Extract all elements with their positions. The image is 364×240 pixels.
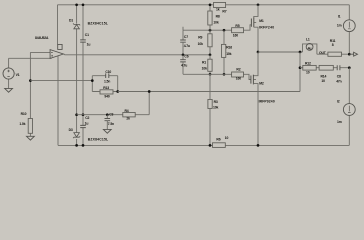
svg-text:D3: D3: [69, 128, 73, 132]
wire op-amp V- drop: [57, 56, 59, 145]
svg-text:C3: C3: [109, 112, 113, 116]
wire C2 branch segment: [82, 115, 84, 146]
node dot R11 right: [348, 53, 351, 56]
resistor R10: [28, 119, 32, 134]
node dot R16 top: [223, 29, 226, 32]
resistor R1: [208, 59, 212, 71]
wire -in from node A: [30, 51, 50, 53]
zener D1: [73, 23, 80, 28]
svg-text:1u: 1u: [85, 122, 89, 126]
svg-text:1.5n: 1.5n: [104, 80, 110, 84]
capacitor C10: [92, 75, 117, 77]
node dot D3 bottom rail: [75, 144, 78, 147]
wire R8 leads: [209, 5, 211, 30]
svg-text:1u: 1u: [87, 43, 91, 47]
wire zener D3 segment: [76, 115, 78, 146]
svg-text:C1: C1: [85, 33, 89, 37]
resistor R14: [319, 65, 333, 70]
wire gate bus lower y=74.3: [183, 74, 251, 79]
resistor R5: [232, 28, 244, 33]
svg-text:R14: R14: [321, 74, 327, 78]
svg-text:10: 10: [306, 71, 310, 75]
resistor R2: [232, 72, 244, 77]
wire R13 leads: [92, 91, 117, 93]
capacitor C2: [80, 125, 86, 127]
svg-text:10: 10: [321, 79, 325, 83]
svg-text:R16: R16: [226, 45, 232, 49]
svg-text:R4: R4: [125, 109, 129, 113]
wire R3 leads: [209, 74, 211, 145]
svg-text:R9: R9: [198, 36, 202, 40]
wire riser x=149.2: [148, 92, 150, 115]
svg-text:4u: 4u: [308, 46, 312, 50]
svg-text:C6: C6: [184, 54, 188, 58]
wire V- bottom rail right segment: [225, 144, 349, 146]
wire gate bus y=30.2: [183, 25, 251, 30]
svg-text:R5: R5: [235, 24, 239, 28]
node dot D3 top: [75, 113, 78, 116]
resistor R3: [208, 100, 212, 109]
svg-text:1.0k: 1.0k: [19, 122, 25, 126]
wire R9 leads: [209, 30, 211, 55]
svg-text:4.7u: 4.7u: [184, 44, 190, 48]
svg-text:1m: 1m: [337, 23, 342, 27]
wire zobel riser: [299, 52, 301, 92]
resistor R12: [303, 65, 316, 70]
svg-text:C7: C7: [184, 35, 188, 39]
svg-text:160: 160: [236, 77, 241, 81]
ground R10: [27, 136, 35, 140]
source I1: [343, 5, 355, 54]
svg-text:R7: R7: [222, 9, 226, 13]
svg-text:10: 10: [225, 136, 229, 140]
transistor M1: [251, 5, 258, 52]
wire feedback from node A: [30, 80, 92, 82]
transistor M2: [251, 52, 258, 145]
wire top V+ rail: [58, 4, 350, 6]
svg-text:7.5n: 7.5n: [108, 122, 114, 126]
svg-text:10k: 10k: [213, 106, 218, 110]
wire output run y=53.9: [258, 52, 349, 54]
port OUT flag: [349, 52, 357, 56]
svg-text:IRFP240: IRFP240: [259, 26, 274, 30]
resistor R8: [208, 11, 212, 25]
wire D1 branch vertical: [76, 5, 78, 115]
svg-text:M2: M2: [259, 82, 264, 86]
node dot C2 bottom rail: [82, 144, 85, 147]
svg-text:47n: 47n: [336, 79, 341, 83]
svg-text:940: 940: [104, 94, 109, 98]
wire R10 to ground: [29, 133, 31, 136]
wire mid supply tie y=114.7: [77, 114, 150, 116]
svg-text:R8: R8: [216, 14, 220, 18]
wire C1 branch vertical: [82, 5, 84, 115]
svg-text:160: 160: [233, 33, 238, 37]
svg-text:BZX84C15L: BZX84C15L: [88, 137, 108, 141]
wire RC loop left: [91, 76, 93, 92]
inductor L1: [303, 44, 317, 55]
svg-text:R3: R3: [214, 100, 218, 104]
svg-text:1m: 1m: [337, 120, 342, 124]
svg-text:C2: C2: [85, 116, 89, 120]
zener D3: [73, 133, 80, 139]
svg-text:I1: I1: [338, 15, 341, 19]
resistor R11: [328, 52, 342, 56]
wire V1 to opamp +in: [9, 57, 52, 59]
svg-text:BZX84C15L: BZX84C15L: [88, 21, 108, 25]
wire V- bottom rail left segment: [58, 144, 213, 146]
node dot C7/C6 mid: [182, 53, 185, 56]
svg-text:D1: D1: [69, 19, 73, 23]
resistor R6: [213, 143, 226, 148]
svg-text:4.7u: 4.7u: [181, 64, 187, 68]
resistor R9: [208, 34, 212, 47]
wire RC loop right: [117, 76, 119, 92]
resistor R13: [100, 90, 113, 94]
svg-text:R6: R6: [216, 138, 220, 142]
node dot R16 bottom: [223, 73, 226, 76]
svg-text:8: 8: [332, 43, 334, 47]
svg-text:C10: C10: [105, 70, 111, 74]
svg-text:IRFP9240: IRFP9240: [259, 100, 275, 104]
source I2: [343, 68, 355, 146]
node dot M1 drain rail: [257, 3, 260, 6]
node dot A feedback tap: [29, 79, 32, 82]
node dot C3 tap: [106, 113, 109, 116]
node dot zobel right: [348, 66, 351, 69]
node dot zobel top: [299, 66, 302, 69]
capacitor C7: [182, 30, 184, 40]
wire op-amp output: [63, 53, 210, 56]
svg-text:I2: I2: [337, 100, 340, 104]
svg-text:1k: 1k: [216, 7, 220, 11]
wire op-amp V+ riser: [57, 5, 59, 45]
wire feedback run y=91.2: [118, 91, 300, 93]
svg-text:R12: R12: [305, 61, 311, 65]
svg-text:OUT: OUT: [319, 51, 327, 55]
svg-text:C8: C8: [337, 74, 341, 78]
capacitor C6: [182, 55, 184, 60]
svg-text:2k: 2k: [126, 117, 130, 121]
svg-text:10k: 10k: [198, 42, 203, 46]
svg-text:10k: 10k: [202, 67, 207, 71]
node dot C2 top: [82, 113, 85, 116]
svg-text:V1: V1: [16, 73, 20, 77]
wire R1 leads: [209, 55, 211, 75]
node dot R3 rail: [209, 144, 212, 147]
node dot riser tap: [148, 90, 151, 93]
node dot R1 bottom: [209, 73, 212, 76]
ground C3: [103, 129, 111, 133]
node dot M2 drain rail: [257, 144, 260, 147]
svg-text:R2: R2: [236, 68, 240, 72]
svg-text:10k: 10k: [226, 52, 231, 56]
svg-text:M1: M1: [259, 19, 264, 23]
source V1: [3, 58, 14, 88]
node dot R9 bottom: [209, 53, 212, 56]
capacitor C8: [337, 65, 340, 70]
node dot R9 top: [209, 29, 212, 32]
wire R16 leads: [223, 30, 225, 74]
resistor R7: [214, 3, 226, 8]
node dot RC in: [91, 79, 94, 82]
svg-text:844U52A: 844U52A: [35, 36, 49, 40]
svg-text:L1: L1: [306, 38, 310, 42]
node dot RC out: [116, 90, 119, 93]
op-amp U1: [50, 44, 63, 58]
svg-text:10k: 10k: [213, 21, 218, 25]
node dot output: [257, 51, 260, 54]
node dot D1 top rail: [75, 3, 78, 6]
node dot R8 rail: [209, 3, 212, 6]
wire zobel row y=67.7: [300, 67, 349, 69]
wire node A vertical: [29, 52, 31, 118]
resistor R16: [222, 44, 226, 57]
resistor R4: [123, 113, 135, 117]
svg-text:R10: R10: [21, 112, 27, 116]
node dot out tap: [299, 51, 302, 54]
node dot C1 top rail: [82, 3, 85, 6]
capacitor C3: [106, 115, 108, 119]
svg-text:R1: R1: [202, 61, 206, 65]
svg-text:R13: R13: [103, 86, 109, 90]
ground V1: [5, 88, 13, 92]
capacitor C1: [80, 40, 86, 42]
